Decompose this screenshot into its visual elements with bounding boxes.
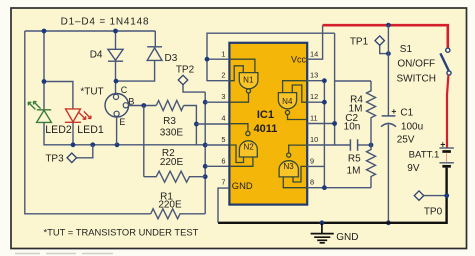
svg-text:D1–D4 = 1N4148: D1–D4 = 1N4148 <box>61 17 150 28</box>
svg-text:9: 9 <box>310 156 314 165</box>
wire LED1 branch <box>44 82 73 109</box>
wire pin 6 <box>205 165 229 167</box>
diode D4 <box>108 49 123 61</box>
node TP1 <box>386 51 391 56</box>
wire emitter drop <box>116 116 118 144</box>
svg-text:10n: 10n <box>344 122 361 133</box>
LED1 (red) <box>65 109 91 122</box>
svg-text:LED2: LED2 <box>45 124 72 136</box>
svg-text:SWITCH: SWITCH <box>397 74 436 85</box>
capacitor C2 <box>350 139 357 151</box>
wire D4 bottom to node <box>115 61 117 94</box>
svg-text:6: 6 <box>221 156 225 165</box>
svg-text:2: 2 <box>221 71 225 80</box>
wire LED2 bottom / common line <box>44 122 206 144</box>
gate N3 <box>279 145 307 188</box>
svg-text:N4: N4 <box>282 97 293 106</box>
svg-text:5: 5 <box>221 135 225 144</box>
wire pin 9 <box>307 165 324 167</box>
wire left outer loop <box>25 31 151 214</box>
wire top-left rail <box>25 30 156 32</box>
wire pins 1-2 to N4 output loop <box>207 33 335 80</box>
svg-text:C1: C1 <box>400 107 413 118</box>
node LED branch <box>42 79 47 84</box>
LED2 (green) <box>28 101 51 122</box>
node Vcc/C1 <box>386 23 391 28</box>
gate N1 <box>229 59 258 102</box>
node pin12 <box>322 100 327 105</box>
svg-text:E: E <box>119 117 125 127</box>
wire pin 1 <box>207 58 230 60</box>
wire pin 14 to Vcc rail <box>307 25 323 59</box>
svg-text:TP0: TP0 <box>424 206 443 217</box>
capacitor C1 <box>381 116 396 127</box>
svg-text:C: C <box>121 85 128 95</box>
svg-text:GND: GND <box>232 180 253 191</box>
svg-text:R3: R3 <box>163 116 176 127</box>
node R4/R5/C2 <box>369 143 374 148</box>
gate N2 <box>229 124 257 167</box>
node pin11 <box>332 121 337 126</box>
node top rail / D4 <box>113 29 118 34</box>
wire right feedback vertical <box>334 33 336 145</box>
svg-text:+: + <box>391 106 396 116</box>
node pin1 <box>205 57 210 62</box>
svg-text:1: 1 <box>221 50 225 59</box>
wire TP2 link <box>183 85 205 93</box>
wire C1 column upper <box>387 25 389 116</box>
svg-text:Vcc: Vcc <box>291 55 307 65</box>
caption remnant below frame <box>15 253 113 255</box>
test point TP2 <box>178 75 187 84</box>
svg-text:13: 13 <box>310 71 318 80</box>
node LED1/common <box>71 142 76 147</box>
wire pin 12 <box>307 101 324 103</box>
test point TP1 <box>380 45 389 53</box>
svg-text:11: 11 <box>310 114 318 123</box>
resistor R5 <box>367 145 376 188</box>
svg-text:IC1: IC1 <box>257 109 274 121</box>
wire R2 riser <box>143 106 145 177</box>
test point TP0 <box>424 195 447 197</box>
wire pin 13 <box>307 80 324 82</box>
svg-text:220E: 220E <box>158 199 182 210</box>
svg-text:4011: 4011 <box>254 123 278 135</box>
svg-text:*TUT = TRANSISTOR UNDER TEST: *TUT = TRANSISTOR UNDER TEST <box>44 226 199 237</box>
node pin6 <box>203 164 208 169</box>
wire pin 5 <box>205 144 229 146</box>
IC1 4011 body <box>229 43 307 205</box>
node base/R2 <box>141 103 146 108</box>
wire D4 top drop <box>115 31 117 49</box>
wire base line <box>128 105 156 107</box>
wire pin 8 line to R5 <box>307 187 371 189</box>
wire pin 7 to ground rail <box>218 188 230 223</box>
wire battery to ground rail (black) <box>218 168 447 223</box>
wire R3 out to pin4 <box>184 106 197 146</box>
wire main left vertical (pins 3,5,6 net) <box>204 92 206 214</box>
test point TP3 <box>76 145 92 158</box>
node pin8 <box>322 185 327 190</box>
svg-text:D3: D3 <box>165 53 178 64</box>
resistor R4 <box>367 81 376 145</box>
svg-text:LED1: LED1 <box>77 124 104 136</box>
ground symbol <box>320 220 325 225</box>
svg-text:BATT.1: BATT.1 <box>409 150 440 161</box>
wire LED feeder <box>43 31 45 110</box>
svg-text:*TUT: *TUT <box>80 87 103 98</box>
svg-text:12: 12 <box>310 92 318 101</box>
wire R4 branch <box>335 80 371 82</box>
svg-text:8: 8 <box>310 178 314 187</box>
gate N4 <box>278 81 307 120</box>
node top rail / LED feeder <box>42 29 47 34</box>
wire LED1 bottom <box>72 122 74 145</box>
svg-text:1M: 1M <box>347 166 361 177</box>
node pin3 <box>203 100 208 105</box>
svg-text:220E: 220E <box>160 157 184 168</box>
svg-text:D4: D4 <box>90 49 103 60</box>
svg-text:N3: N3 <box>283 162 294 171</box>
svg-text:ON/OFF: ON/OFF <box>397 59 435 70</box>
node TP3 riser <box>90 142 95 147</box>
wire D3 bottom to node <box>116 60 155 81</box>
svg-text:9V: 9V <box>407 163 420 174</box>
node C1/ground rail <box>386 220 391 225</box>
svg-text:S1: S1 <box>400 44 413 55</box>
wire C1 column lower <box>387 125 389 223</box>
node TP0 <box>444 193 449 198</box>
wire inputs vertical (13-12-8) <box>323 81 325 188</box>
svg-text:R5: R5 <box>348 153 361 164</box>
svg-text:10: 10 <box>310 135 318 144</box>
svg-text:1M: 1M <box>349 103 363 114</box>
svg-text:330E: 330E <box>160 128 184 139</box>
node pin5/common <box>203 143 208 148</box>
svg-text:14: 14 <box>310 50 318 59</box>
resistor R2 <box>144 171 205 182</box>
wire pin 4 <box>196 123 229 125</box>
svg-text:TP3: TP3 <box>45 153 64 164</box>
svg-text:25V: 25V <box>397 135 415 146</box>
svg-text:3: 3 <box>221 92 225 101</box>
diode D3 <box>147 47 162 61</box>
svg-text:7: 7 <box>221 178 225 187</box>
wire switch to battery (red) <box>447 75 448 148</box>
node pin4 <box>194 122 199 127</box>
node pin13 <box>322 78 327 83</box>
resistor R3 <box>156 101 183 111</box>
svg-text:4: 4 <box>221 114 225 123</box>
svg-text:TP1: TP1 <box>350 36 369 47</box>
svg-text:100u: 100u <box>401 122 423 133</box>
svg-text:N2: N2 <box>243 142 254 151</box>
resistor R1 <box>151 209 205 219</box>
node R2 out <box>203 174 208 179</box>
wire pin 11 <box>307 123 335 125</box>
svg-text:N1: N1 <box>243 75 254 84</box>
svg-text:TP2: TP2 <box>176 64 195 75</box>
svg-text:GND: GND <box>336 232 358 243</box>
wire pin 3 <box>205 101 229 103</box>
node C (D3/D4/collector junction) <box>114 79 119 84</box>
node emitter <box>115 142 120 147</box>
wire pin 10 to C2 <box>307 144 350 146</box>
wire Vcc rail (red) <box>323 25 448 48</box>
wire D3 top drop <box>154 31 156 47</box>
